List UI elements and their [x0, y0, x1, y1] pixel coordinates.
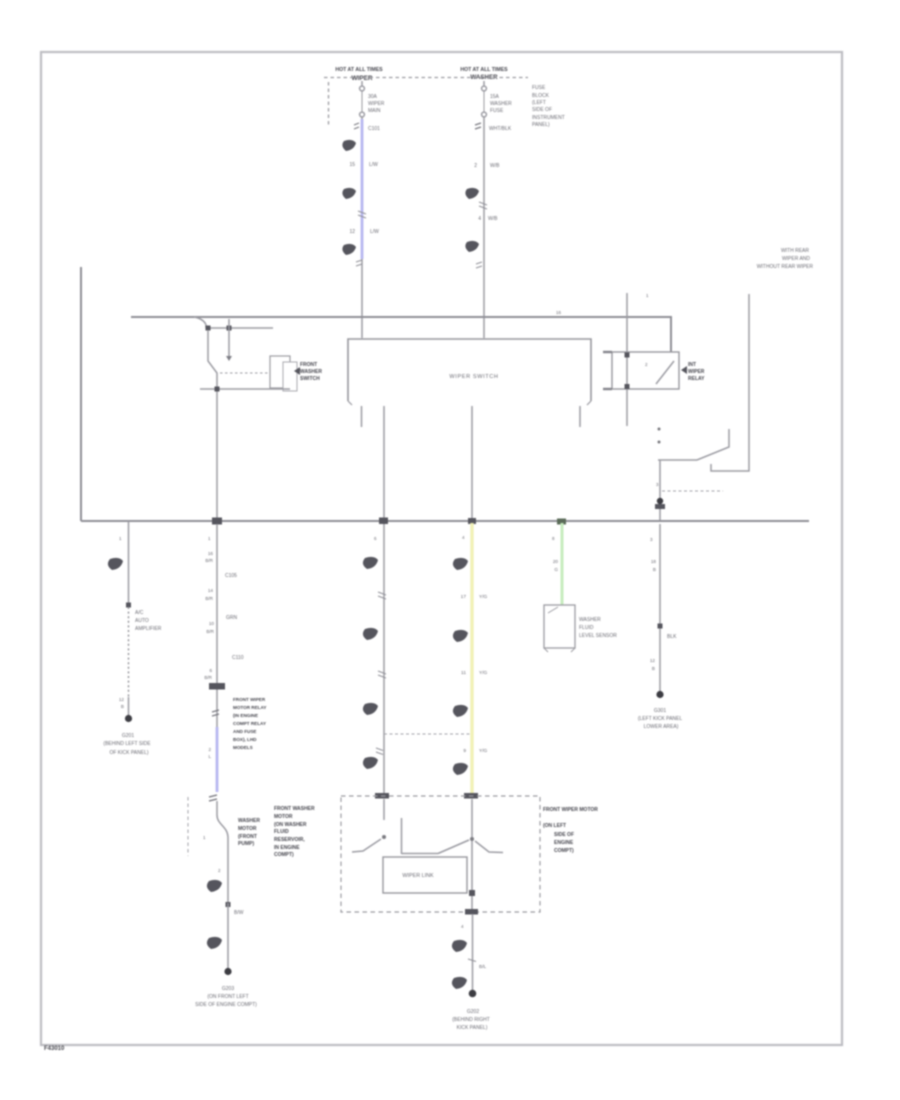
wire drop2 blue [216, 727, 219, 792]
junction drop2 at bus [212, 518, 222, 525]
svg-text:L/W: L/W [369, 162, 378, 168]
svg-text:8: 8 [552, 536, 555, 541]
wire color at splice [234, 910, 244, 916]
connector C102 pins (right drop) [475, 123, 512, 132]
svg-text:2: 2 [208, 747, 211, 752]
grommet (left drop, upper) [342, 140, 356, 151]
svg-text:WASHER: WASHER [579, 617, 601, 623]
washer switch label [294, 362, 322, 382]
svg-text:1: 1 [119, 536, 122, 541]
svg-text:L/W: L/W [370, 229, 379, 235]
wire right drop [483, 117, 485, 338]
junction dot A [206, 326, 211, 331]
svg-text:MOTOR: MOTOR [238, 826, 257, 832]
node splice to washer switch [194, 317, 206, 328]
mechanical link (dashed) [220, 372, 270, 374]
svg-text:(BEHIND LEFT SIDE: (BEHIND LEFT SIDE [103, 741, 151, 747]
junction drop3 at bus [379, 518, 388, 525]
ground G203 [195, 968, 257, 1008]
svg-text:MOTOR RELAY: MOTOR RELAY [233, 705, 266, 710]
grommet yellow b [453, 630, 468, 642]
fuse box dashed outline [324, 78, 528, 128]
svg-text:LOWER AREA): LOWER AREA) [644, 724, 679, 730]
label washer relay block [233, 697, 266, 750]
variant dashed divider [187, 797, 189, 856]
pin stub 2 / wire to bus [383, 406, 385, 521]
wire drop3 [374, 524, 384, 794]
wire washer branch [208, 327, 273, 329]
wiper switch box U1 [348, 339, 591, 405]
wire color label L2 [349, 229, 379, 235]
splice mark drop3 b [378, 671, 386, 678]
connector bar drop2 [209, 683, 225, 690]
svg-text:(BEHIND RIGHT: (BEHIND RIGHT [452, 1017, 490, 1023]
label washer pump left [238, 818, 260, 847]
washer level sensor box [544, 605, 575, 652]
ground bus [81, 520, 809, 522]
pin tick intermittent relay [646, 293, 649, 298]
wire relay feed [626, 293, 628, 426]
splice mark left drop [358, 211, 366, 218]
svg-text:12: 12 [119, 697, 125, 702]
svg-text:WIPER: WIPER [368, 101, 385, 107]
svg-text:B/L: B/L [479, 964, 487, 970]
svg-text:KICK PANEL): KICK PANEL) [457, 1025, 488, 1031]
grommet yellow a [453, 558, 468, 570]
splice dot S1 [657, 498, 663, 504]
svg-text:G202: G202 [467, 1009, 479, 1015]
washer switch fixed contact [226, 319, 232, 361]
svg-text:PANEL): PANEL) [532, 122, 550, 128]
node 16 tick [556, 310, 562, 315]
svg-text:PUMP): PUMP) [238, 841, 254, 847]
pin stub 4 [579, 406, 581, 427]
svg-text:WIPER SWITCH: WIPER SWITCH [449, 374, 498, 380]
connector mark right drop bottom [476, 262, 482, 268]
svg-text:6: 6 [209, 668, 212, 673]
svg-text:(LEFT KICK PANEL: (LEFT KICK PANEL [638, 716, 682, 722]
svg-text:(ON FRONT LEFT: (ON FRONT LEFT [207, 994, 248, 1000]
variant note (top right) [757, 248, 814, 270]
junction yellow at bus [468, 518, 476, 524]
connector pins drop2 low [209, 795, 217, 801]
junction dot relay top [625, 353, 630, 358]
wire label yellow b [461, 670, 488, 676]
svg-text:(ON WASHER: (ON WASHER [274, 822, 307, 828]
svg-text:COMPT): COMPT) [554, 848, 574, 854]
svg-text:LEVEL SENSOR: LEVEL SENSOR [579, 633, 617, 639]
grommet drop1 [108, 558, 123, 570]
svg-text:RELAY: RELAY [688, 376, 705, 382]
pin stub 1 [361, 406, 363, 427]
grommet yellow c [453, 705, 468, 717]
park switch contacts [658, 428, 730, 461]
svg-text:W/B: W/B [490, 163, 500, 169]
wire feed bus [131, 317, 671, 352]
fuse F1 [360, 81, 385, 117]
junction dot C [215, 387, 220, 392]
svg-text:20: 20 [553, 559, 559, 564]
wire motor ground [461, 914, 473, 990]
splice S301 [658, 624, 663, 629]
ground G301 [638, 691, 682, 730]
svg-text:(IN ENGINE: (IN ENGINE [233, 713, 258, 718]
label HOT AT ALL TIMES (right feed) [460, 67, 508, 73]
svg-text:4: 4 [462, 535, 465, 540]
svg-text:BLK: BLK [667, 634, 677, 640]
svg-text:WIPER: WIPER [688, 369, 705, 375]
label A/C amplifier [135, 610, 162, 632]
svg-text:17: 17 [461, 594, 467, 600]
connector motor exit [465, 909, 478, 915]
svg-text:BLOCK: BLOCK [532, 93, 550, 99]
svg-text:16: 16 [208, 551, 214, 556]
splice S202 [226, 902, 231, 907]
junction dot relay bottom [625, 384, 630, 389]
grommet drop3 d [363, 757, 378, 769]
grommet yellow d [453, 763, 468, 775]
fuse block name (right) [470, 74, 498, 81]
svg-text:10: 10 [209, 621, 215, 626]
relay label [681, 362, 705, 382]
svg-text:B/R: B/R [206, 629, 214, 634]
svg-text:Y/G: Y/G [479, 594, 488, 600]
svg-text:Y/G: Y/G [479, 748, 488, 754]
washer switch movable contact [208, 330, 217, 521]
svg-text:1: 1 [646, 293, 649, 298]
intermittent relay box [603, 352, 679, 389]
connector yellow into motor [464, 793, 478, 799]
wire motor armature [471, 841, 473, 912]
connector mark left drop bottom [356, 260, 362, 266]
svg-text:GRN: GRN [226, 615, 238, 621]
pin label park [656, 482, 659, 487]
ground G202 [452, 990, 490, 1031]
grommet motor gnd b [452, 977, 467, 989]
connector pins drop2 [212, 710, 219, 716]
grommet drop3 b [363, 628, 378, 640]
svg-text:C101: C101 [368, 126, 380, 132]
sheet number [44, 1046, 65, 1052]
svg-text:OF KICK PANEL): OF KICK PANEL) [109, 750, 148, 756]
svg-text:COMPT): COMPT) [274, 852, 294, 858]
splice label right drop [474, 163, 500, 169]
splice S201 [126, 603, 131, 608]
svg-text:WASHER: WASHER [238, 818, 260, 824]
svg-text:1: 1 [208, 536, 211, 541]
grommet drop2 [207, 880, 222, 892]
washer level sensor label [579, 617, 617, 639]
svg-text:C105: C105 [225, 573, 237, 579]
wire left drop (blue) [361, 117, 363, 338]
wire drop4 [650, 524, 660, 692]
svg-text:(FRONT: (FRONT [238, 834, 257, 840]
svg-text:WASHER: WASHER [300, 369, 322, 375]
svg-text:MAIN: MAIN [368, 108, 381, 114]
svg-text:3: 3 [650, 537, 653, 542]
motor brush switch left [352, 818, 438, 854]
grommet drop3 c [363, 703, 378, 715]
svg-text:2: 2 [218, 868, 221, 873]
fuse block location label [532, 85, 565, 128]
svg-text:MOTOR: MOTOR [274, 814, 293, 820]
wire green [552, 519, 566, 607]
wire left rail [80, 267, 82, 521]
wire color drop2 low [208, 747, 211, 759]
wire yellow [470, 523, 473, 794]
svg-text:HOT AT ALL TIMES: HOT AT ALL TIMES [460, 67, 508, 73]
grommet (right drop, upper) [465, 188, 479, 199]
pin tick 2 [218, 868, 221, 873]
grommet drop2 low [207, 937, 222, 949]
wire motor low speed [383, 799, 385, 820]
fuse F2 [482, 81, 513, 117]
svg-text:3: 3 [656, 482, 659, 487]
svg-text:INT: INT [688, 362, 696, 368]
svg-text:16: 16 [556, 310, 562, 315]
wire drop1 shielded (dotted) [128, 607, 130, 697]
pin tick yellow top [462, 535, 465, 540]
svg-text:SWITCH: SWITCH [300, 376, 320, 382]
washer switch connector box [270, 356, 297, 391]
svg-text:6: 6 [374, 536, 377, 541]
svg-text:ENGINE: ENGINE [554, 840, 574, 846]
connector drop4 above bus [655, 504, 665, 509]
svg-text:30A: 30A [368, 94, 378, 100]
grommet motor gnd a [452, 940, 467, 952]
svg-text:1: 1 [203, 835, 206, 840]
grommet (right drop, lower) [465, 241, 479, 252]
svg-text:SIDE OF: SIDE OF [532, 107, 552, 113]
junction dot B [227, 326, 232, 331]
svg-text:FRONT: FRONT [300, 362, 317, 368]
svg-text:Y/G: Y/G [479, 670, 488, 676]
svg-text:AMPLIFIER: AMPLIFIER [135, 626, 162, 632]
svg-text:COMPT RELAY: COMPT RELAY [233, 721, 266, 726]
svg-text:G: G [554, 567, 558, 572]
grommet (left drop, lower) [342, 244, 356, 255]
splice mark drop3 a [378, 592, 386, 599]
svg-text:12: 12 [349, 229, 355, 235]
svg-text:W/B: W/B [488, 216, 498, 222]
svg-text:B/R: B/R [204, 675, 212, 680]
svg-text:WIPER: WIPER [352, 75, 373, 82]
wire color label R2 [478, 216, 498, 222]
svg-text:B/R: B/R [205, 596, 213, 601]
svg-text:C110: C110 [232, 655, 244, 661]
svg-text:14: 14 [208, 588, 214, 593]
svg-text:G201: G201 [122, 733, 134, 739]
svg-text:WIPER LINK: WIPER LINK [402, 873, 434, 879]
svg-text:FLUID: FLUID [579, 625, 594, 631]
svg-text:BOX), LHD: BOX), LHD [233, 737, 257, 742]
wire motor high speed [471, 799, 473, 837]
svg-text:(ON LEFT: (ON LEFT [543, 823, 566, 829]
svg-text:15: 15 [349, 162, 355, 168]
label washer pump right [274, 806, 315, 858]
svg-text:11: 11 [461, 670, 466, 676]
pin stub 3 / wire to bus [471, 406, 473, 521]
dashed variant link [662, 490, 723, 492]
svg-text:B/R: B/R [205, 558, 213, 563]
svg-text:WITHOUT REAR WIPER: WITHOUT REAR WIPER [757, 264, 814, 270]
svg-text:WASHER: WASHER [490, 101, 512, 107]
fuse block name (left) [352, 75, 373, 82]
svg-text:B/W: B/W [234, 910, 244, 916]
svg-text:4: 4 [461, 924, 464, 929]
wire park to ground bus [659, 460, 661, 521]
wiper motor label [543, 807, 598, 854]
wire color label L [349, 162, 378, 168]
svg-text:MODELS: MODELS [233, 745, 253, 750]
svg-text:FRONT WASHER: FRONT WASHER [274, 806, 315, 812]
label HOT AT ALL TIMES (left feed) [335, 67, 383, 73]
svg-text:FRONT WIPER MOTOR: FRONT WIPER MOTOR [543, 807, 598, 813]
svg-text:2: 2 [474, 163, 477, 169]
splice mark drop3 c [376, 748, 383, 755]
svg-text:FUSE: FUSE [490, 108, 504, 114]
grommet (left drop, mid) [342, 188, 356, 199]
svg-text:4: 4 [478, 216, 481, 222]
wire drop2 [208, 524, 217, 727]
svg-text:FRONT WIPER: FRONT WIPER [233, 697, 266, 702]
svg-text:F43010: F43010 [44, 1046, 65, 1052]
wire drop2 to ground [227, 903, 229, 969]
svg-text:INSTRUMENT: INSTRUMENT [532, 115, 565, 121]
svg-text:B: B [652, 666, 655, 671]
svg-text:9: 9 [463, 748, 466, 754]
svg-text:18: 18 [651, 559, 657, 564]
svg-text:WHT/BLK: WHT/BLK [489, 126, 512, 132]
svg-text:15A: 15A [490, 94, 500, 100]
wire color drop4 [650, 634, 677, 671]
wire drop2 offset [217, 801, 228, 903]
splice mark motor gnd [468, 959, 487, 970]
svg-text:B: B [653, 567, 656, 572]
svg-text:FUSE: FUSE [532, 85, 546, 91]
wire label yellow c [463, 748, 487, 754]
svg-text:SIDE OF: SIDE OF [554, 832, 574, 838]
svg-text:G203: G203 [222, 986, 234, 992]
svg-text:(LEFT: (LEFT [532, 100, 546, 106]
svg-text:SIDE OF ENGINE COMPT): SIDE OF ENGINE COMPT) [195, 1002, 257, 1008]
svg-text:AND FUSE: AND FUSE [233, 729, 256, 734]
svg-text:G301: G301 [654, 708, 666, 714]
svg-text:WITH REAR: WITH REAR [781, 248, 809, 254]
ground G201 [103, 715, 151, 756]
wire washer switch output [200, 388, 290, 390]
wire label yellow a [461, 594, 488, 600]
grommet drop3 a [363, 557, 378, 569]
motor brush switch right [438, 837, 503, 854]
connector drop3 into motor [375, 793, 389, 799]
svg-text:AUTO: AUTO [135, 618, 149, 624]
svg-text:2: 2 [645, 362, 648, 367]
junction motor out [469, 890, 475, 896]
connector labels drop2 [204, 551, 243, 680]
svg-text:WIPER AND: WIPER AND [782, 256, 810, 262]
dashed option link [384, 733, 470, 735]
wire right return rail [711, 294, 749, 471]
pin tick washer pump [203, 835, 206, 840]
wire drop1 [119, 521, 129, 604]
svg-text:B: B [121, 704, 124, 709]
splice mark right drop [479, 202, 487, 209]
svg-text:12: 12 [650, 658, 656, 663]
svg-text:HOT AT ALL TIMES: HOT AT ALL TIMES [335, 67, 383, 73]
svg-text:L: L [208, 754, 211, 759]
wiper motor dashed box [341, 796, 540, 912]
wire color drop1 [119, 697, 129, 716]
svg-text:RESERVOIR,: RESERVOIR, [274, 837, 305, 843]
svg-text:A/C: A/C [135, 610, 144, 616]
connector C101 pins (left drop) [354, 123, 380, 132]
wiper link block [383, 857, 467, 893]
svg-text:IN ENGINE: IN ENGINE [274, 845, 300, 851]
svg-text:FLUID: FLUID [274, 829, 289, 835]
